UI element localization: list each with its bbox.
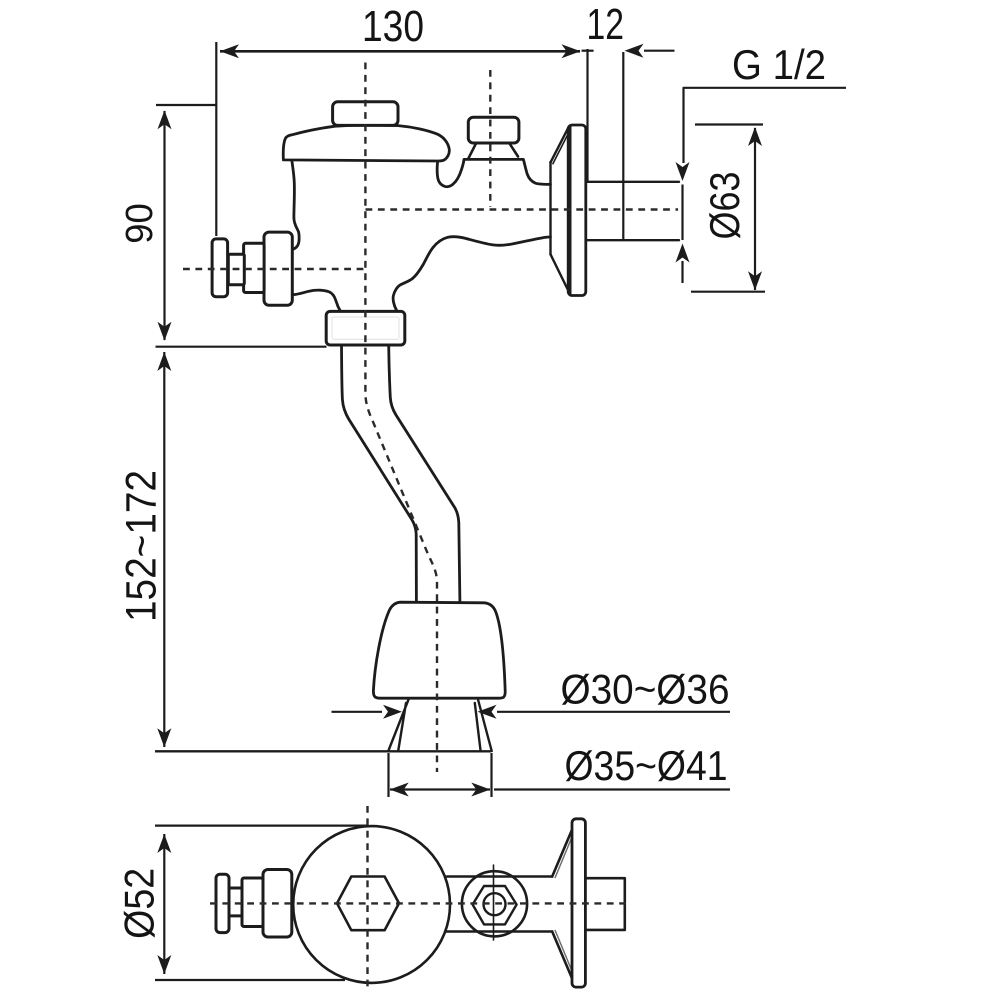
tailpipe right edge — [389, 345, 460, 601]
arrow Ø63 up — [748, 127, 762, 146]
handle big block — [264, 232, 292, 305]
arrow Ø63 down — [748, 271, 762, 290]
handle end cap — [212, 239, 228, 297]
arrow Ø35~Ø41 right (pointing right) — [471, 783, 490, 797]
outlet nut inner line — [332, 317, 399, 339]
plan: flange plate — [572, 819, 585, 987]
svg-text:Ø30~Ø36: Ø30~Ø36 — [561, 666, 730, 713]
handle axis horizontal centerline — [183, 268, 366, 270]
dim 12: stub line between extensions — [582, 50, 594, 52]
dim 130: dimension line — [220, 50, 580, 53]
side port vertical centerline — [489, 70, 491, 207]
dim Ø63: bottom extension line — [691, 291, 765, 293]
plan handle stem — [229, 888, 242, 916]
dim Ø35~Ø41: left extension line — [387, 753, 389, 797]
plan: main body circle — [293, 826, 450, 983]
dim 130: extension line (left, handle cap face) — [215, 42, 217, 236]
plan view vertical centerline — [366, 806, 368, 992]
body bottom-left outline to outlet nut — [293, 290, 341, 311]
saddle between dome and side port, port base line, arm top outline — [437, 159, 550, 186]
arrow 130/12 right — [562, 44, 581, 58]
arrow Ø30~Ø36 left (pointing right) — [383, 705, 402, 719]
dim Ø35~Ø41: text underline — [494, 788, 730, 790]
arrow Ø52 down — [157, 955, 171, 974]
dim Ø63: top extension line — [695, 123, 763, 125]
plan view handle — [216, 870, 292, 938]
plan: port hex — [473, 886, 517, 924]
dim Ø52: top extension line — [155, 824, 367, 826]
svg-text:130: 130 — [362, 2, 424, 51]
plan handle big block — [263, 870, 292, 938]
flange cone bottom slant — [551, 254, 568, 289]
svg-text:152~172: 152~172 — [118, 470, 166, 622]
main vertical centerline through body and tailpipe — [365, 63, 437, 773]
plan handle end cap — [216, 874, 229, 932]
flange plate — [568, 125, 586, 296]
plan: inlet pipe lines — [447, 877, 552, 932]
G 1/2 measure line between arrows — [681, 185, 683, 241]
outlet nut and tailpipe — [326, 311, 505, 751]
dim Ø30~Ø36: right shaft and text underline — [497, 711, 730, 713]
shared extension line at body base — [156, 346, 327, 348]
svg-text:G 1/2: G 1/2 — [732, 41, 826, 88]
dim Ø30~Ø36: left arrow shaft — [332, 711, 383, 713]
plan: wall pipe — [585, 878, 624, 930]
dim Ø35~Ø41: dimension line — [390, 788, 490, 790]
side port cap — [468, 117, 519, 143]
dim Ø52: bottom extension line — [155, 979, 345, 981]
flange cone top slants — [551, 127, 569, 162]
rubber cone (spud washer) — [373, 602, 505, 698]
svg-text:90: 90 — [119, 203, 161, 244]
tailpipe left edge — [342, 345, 417, 601]
bottom reference line (outlet plane) — [155, 750, 491, 752]
side port trapezoid slants — [468, 143, 518, 159]
dim 90: top extension line — [156, 104, 217, 106]
dim 90: dimension line — [163, 111, 165, 340]
lid (bonnet dome) — [283, 125, 449, 161]
plan view horizontal centerline — [210, 902, 631, 904]
flange cone left edge — [549, 162, 551, 255]
dim Ø35~Ø41: right extension line — [490, 753, 492, 797]
arrow 152~172 down — [157, 728, 171, 747]
G 1/2 lower arrow shaft — [681, 261, 683, 283]
plan: port nut circle — [462, 871, 527, 936]
svg-text:Ø52: Ø52 — [116, 868, 163, 939]
plan: port vertical centerline — [493, 865, 495, 940]
flush handle (front view) — [212, 232, 292, 305]
body left edge (chamber wall) — [292, 160, 299, 249]
svg-text:12: 12 — [587, 0, 625, 49]
arrow 130 left — [220, 44, 239, 58]
handle mid block — [244, 243, 265, 292]
arrow Ø35~Ø41 left (pointing left) — [390, 783, 409, 797]
dim 152~172: dimension line — [163, 352, 165, 747]
outlet arm underside outline (nut to wall flange) — [393, 237, 550, 311]
arrow 90 up — [158, 110, 172, 129]
spud outlet flare lines — [388, 700, 491, 752]
dim 12: extension line at flange face — [586, 49, 588, 181]
dim Ø52: dimension line — [163, 834, 165, 974]
plan: hex on body — [337, 877, 399, 931]
arrow 90 down — [158, 322, 172, 341]
arrow 12 right (pointing left) — [625, 44, 644, 58]
top push button — [333, 102, 398, 126]
dim 12: right arrow shaft — [644, 50, 675, 52]
inlet axis horizontal centerline — [366, 208, 679, 210]
arrow 152~172 up — [157, 352, 171, 371]
svg-text:Ø63: Ø63 — [701, 172, 748, 240]
G 1/2 leader line — [684, 88, 847, 163]
svg-text:Ø35~Ø41: Ø35~Ø41 — [565, 742, 728, 789]
plan: flange cone slants — [552, 830, 572, 979]
flange plate front face line — [568, 127, 571, 294]
wall flange (front view) — [551, 125, 680, 296]
arrow G1/2 down — [676, 162, 690, 181]
plan handle mid block — [242, 878, 263, 927]
dim 12: extension line at pipe end — [622, 52, 624, 240]
wall pipe top and bottom lines — [586, 182, 679, 240]
dim Ø63: dimension line — [754, 128, 756, 290]
handle stem — [228, 254, 244, 285]
arrow G1/2 up — [676, 244, 690, 263]
arrow Ø30~Ø36 right (pointing left) — [478, 705, 497, 719]
outlet nut — [326, 311, 405, 345]
plan: port inner circle — [484, 893, 506, 915]
arrow Ø52 up — [157, 834, 171, 853]
